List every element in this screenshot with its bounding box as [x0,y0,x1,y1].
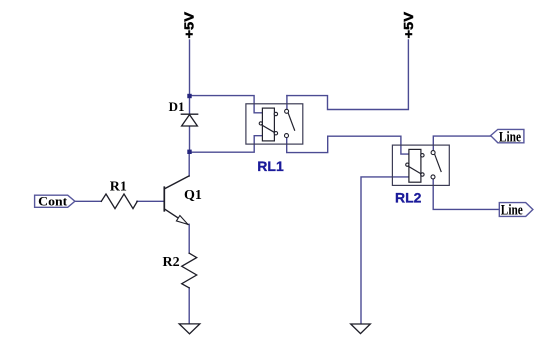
relay RL2 [392,145,449,185]
transistor Q1 [164,176,189,224]
relay RL1 [246,104,303,144]
svg-text:RL2: RL2 [395,189,422,205]
ground under R2 [179,324,200,334]
wire Q1 emitter to R2 [188,224,190,253]
wire Cont to R1 [75,200,101,202]
wire RL1 coil top feed [190,96,263,113]
svg-text:R1: R1 [110,179,127,194]
wire +5V rail 1 riser [189,40,191,96]
wire RL1 switch NO to RL2 coil feed [287,136,409,154]
junction node at D1 anode / collector [187,150,191,154]
port Line bottom [499,203,533,219]
svg-text:Q1: Q1 [184,188,202,203]
diode D1 [181,114,197,126]
junction node at D1 cathode / +5V [187,94,191,98]
svg-text:RL1: RL1 [257,158,284,174]
resistor R1 [101,194,137,209]
svg-text:+5V: +5V [401,12,416,39]
wire RL2 coil bottom return to ground [361,177,409,324]
port Cont [35,193,75,208]
svg-text:+5V: +5V [182,12,197,39]
wire junction to Q1 collector [188,152,190,176]
svg-text:D1: D1 [169,99,185,114]
resistor R2 [182,253,197,288]
wire RL1 switch to +5V rail 2 [287,40,409,110]
svg-text:Line: Line [501,203,523,219]
ground under RL2 coil return [351,324,371,334]
svg-text:Cont: Cont [38,193,68,208]
wire RL2 switch NO to Line bottom [433,179,499,210]
wire RL1 coil bottom return [190,136,263,153]
port Line top [491,129,524,145]
wire D1 anode to junction [189,126,191,152]
wire RL1 switch common riser [286,96,288,110]
wire R1 to Q1 base [137,200,165,202]
svg-text:Line: Line [499,129,521,145]
svg-text:R2: R2 [163,255,180,270]
wire R2 to ground [188,288,190,324]
wire RL2 switch to Line top [433,136,490,151]
wire junction to D1 cathode [189,96,191,114]
